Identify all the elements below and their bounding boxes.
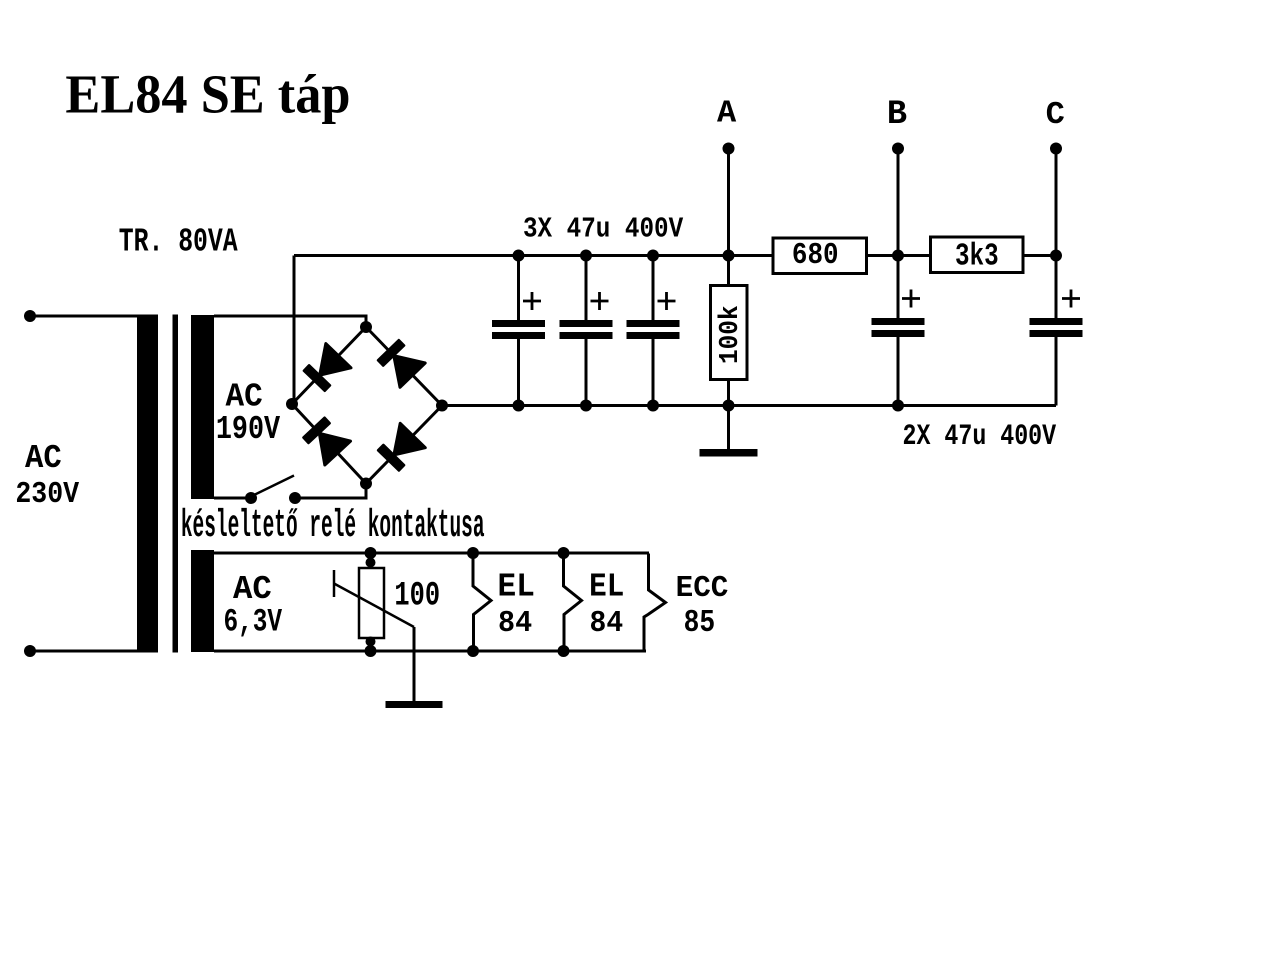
svg-text:84: 84 <box>498 606 532 640</box>
svg-text:84: 84 <box>590 606 624 640</box>
junction: C2 on + bus <box>580 250 592 262</box>
junction: C1 on 0V bus <box>513 400 525 412</box>
wire: C1 bottom stub <box>517 339 520 406</box>
ground symbol (heater) <box>386 701 443 708</box>
junction: A on + bus <box>723 250 735 262</box>
terminal: node B <box>892 143 904 155</box>
bridge node: right - vertex <box>436 400 448 412</box>
svg-text:EL84 SE táp: EL84 SE táp <box>65 64 350 125</box>
wire: + bus right segment <box>1023 254 1056 257</box>
junction: C3 on + bus <box>647 250 659 262</box>
junction: B on + bus <box>892 250 904 262</box>
capacitor C2 polarity + <box>591 292 609 310</box>
junction: thermistor bottom rail <box>365 645 377 657</box>
terminal: mains bottom <box>24 645 36 657</box>
diode D2 (lower-left, cathode to + node) <box>303 418 350 465</box>
wire: C2 top stub <box>585 256 588 321</box>
svg-text:100: 100 <box>394 576 440 615</box>
capacitor C3 polarity + <box>658 292 676 310</box>
wire: 0V bus <box>442 404 1056 407</box>
svg-text:6,3V: 6,3V <box>223 603 282 640</box>
wire: heater top rail <box>214 552 649 555</box>
capacitor C2 bottom plate <box>560 332 613 339</box>
thermistor top terminal <box>366 558 376 568</box>
capacitor C2 top plate <box>560 320 613 327</box>
junction: C1 on + bus <box>513 250 525 262</box>
svg-text:230V: 230V <box>15 477 80 512</box>
wire: C2 bottom stub <box>585 339 588 406</box>
terminal: node C <box>1050 143 1062 155</box>
svg-text:ECC: ECC <box>676 571 729 606</box>
thermistor RT1 body <box>359 568 384 638</box>
resistor R1 100k body <box>711 286 748 380</box>
capacitor C5 polarity + <box>1062 290 1080 308</box>
capacitor C3 top plate <box>627 320 680 327</box>
capacitor C4 top plate <box>872 318 925 325</box>
wire: C1 top stub <box>517 256 520 321</box>
wire: R1 to 0V bus <box>727 380 730 407</box>
thermistor symbol diagonal <box>334 584 414 628</box>
capacitor C4 bottom plate <box>872 330 925 337</box>
transformer T1 secondary 6.3V winding bar <box>191 550 214 652</box>
svg-text:B: B <box>887 96 907 134</box>
svg-text:C: C <box>1046 99 1065 133</box>
svg-text:680: 680 <box>792 240 839 273</box>
junction: R1 on 0V bus <box>723 400 735 412</box>
capacitor C1 bottom plate <box>492 332 545 339</box>
junction: C on + bus <box>1050 250 1062 262</box>
relay contact: left terminal <box>245 492 257 504</box>
svg-text:A: A <box>717 97 736 132</box>
transformer T1 secondary 190V winding bar <box>191 315 214 499</box>
svg-text:AC: AC <box>226 378 263 416</box>
wire: thermistor top stub <box>369 553 372 568</box>
thermistor symbol tick <box>333 570 336 597</box>
wire: heater ground lead <box>413 627 416 701</box>
wire: C5 bottom stub <box>1055 337 1058 406</box>
svg-text:2X 47u 400V: 2X 47u 400V <box>903 420 1057 453</box>
terminal: mains top <box>24 310 36 322</box>
junction: C4 on 0V bus <box>892 400 904 412</box>
terminal: node A <box>723 143 735 155</box>
svg-text:85: 85 <box>684 605 716 641</box>
wire: node A drop to R1 <box>727 149 730 286</box>
junction: V2 heater top <box>558 547 570 559</box>
relay contact: right terminal <box>289 492 301 504</box>
resistor R2 680 body <box>773 238 867 274</box>
svg-text:100k: 100k <box>715 305 745 364</box>
transformer T1 core <box>173 315 179 653</box>
relay contact lever (open switch) <box>252 476 294 497</box>
svg-text:AC: AC <box>233 571 272 609</box>
wire: bridge + output riser <box>293 256 296 405</box>
diode D4 (lower-right, cathode to AC bottom) <box>378 423 425 470</box>
bridge rectifier diamond <box>292 327 442 484</box>
diode D1 (upper-left, cathode to + node) <box>304 344 351 391</box>
wire: C3 bottom stub <box>652 339 655 406</box>
wire: C4 bottom stub <box>897 337 900 406</box>
junction: thermistor top rail <box>365 547 377 559</box>
wire: bridge bottom vertex to relay contact <box>295 484 366 499</box>
wire: 0V bus to ground <box>727 406 730 449</box>
bridge node: left + vertex <box>286 398 298 410</box>
diode D3 (upper-right, cathode to AC top) <box>378 340 425 387</box>
svg-text:3k3: 3k3 <box>955 240 999 275</box>
wire: relay contact to 190V winding <box>214 497 251 500</box>
wire: heater bottom rail <box>214 650 646 653</box>
ground symbol (HV) <box>700 449 758 457</box>
svg-text:késleltető relé kontaktusa: késleltető relé kontaktusa <box>181 506 485 549</box>
capacitor C3 bottom plate <box>627 332 680 339</box>
wire: C3 top stub <box>652 256 655 321</box>
svg-text:190V: 190V <box>216 412 281 449</box>
wire: AC mains bottom lead <box>30 650 138 653</box>
tube V3 ECC85 heater element <box>644 554 666 652</box>
junction: V1 heater top <box>467 547 479 559</box>
svg-text:EL: EL <box>498 568 535 606</box>
svg-text:TR. 80VA: TR. 80VA <box>119 223 238 260</box>
resistor R3 3k3 body <box>931 237 1024 273</box>
bridge node: bottom AC vertex <box>360 478 372 490</box>
wire: node B drop <box>897 149 900 319</box>
bridge node: top AC vertex <box>360 321 372 333</box>
wire: node C drop <box>1055 149 1058 319</box>
wire: + bus between R2 and R3 <box>867 254 931 257</box>
transformer T1 primary winding bar <box>137 315 158 653</box>
wire: thermistor bottom stub <box>369 638 372 651</box>
wire: + bus left segment <box>294 254 773 257</box>
svg-text:3X 47u 400V: 3X 47u 400V <box>523 213 683 245</box>
svg-text:AC: AC <box>25 439 62 478</box>
wire: 190V secondary to bridge AC input <box>214 316 366 327</box>
capacitor C5 bottom plate <box>1030 330 1083 337</box>
capacitor C1 top plate <box>492 320 545 327</box>
svg-text:EL: EL <box>589 569 624 606</box>
thermistor bottom terminal <box>366 637 376 647</box>
capacitor C5 top plate <box>1030 318 1083 325</box>
capacitor C4 polarity + <box>902 290 920 308</box>
tube V1 EL84 heater element <box>473 554 491 652</box>
capacitor C1 polarity + <box>523 292 541 310</box>
tube V2 EL84 heater element <box>564 553 582 651</box>
junction: V1 heater bottom <box>467 645 479 657</box>
junction: V2 heater bottom <box>558 645 570 657</box>
junction: C2 on 0V bus <box>580 400 592 412</box>
wire: AC mains top lead <box>30 315 138 318</box>
junction: C3 on 0V bus <box>647 400 659 412</box>
